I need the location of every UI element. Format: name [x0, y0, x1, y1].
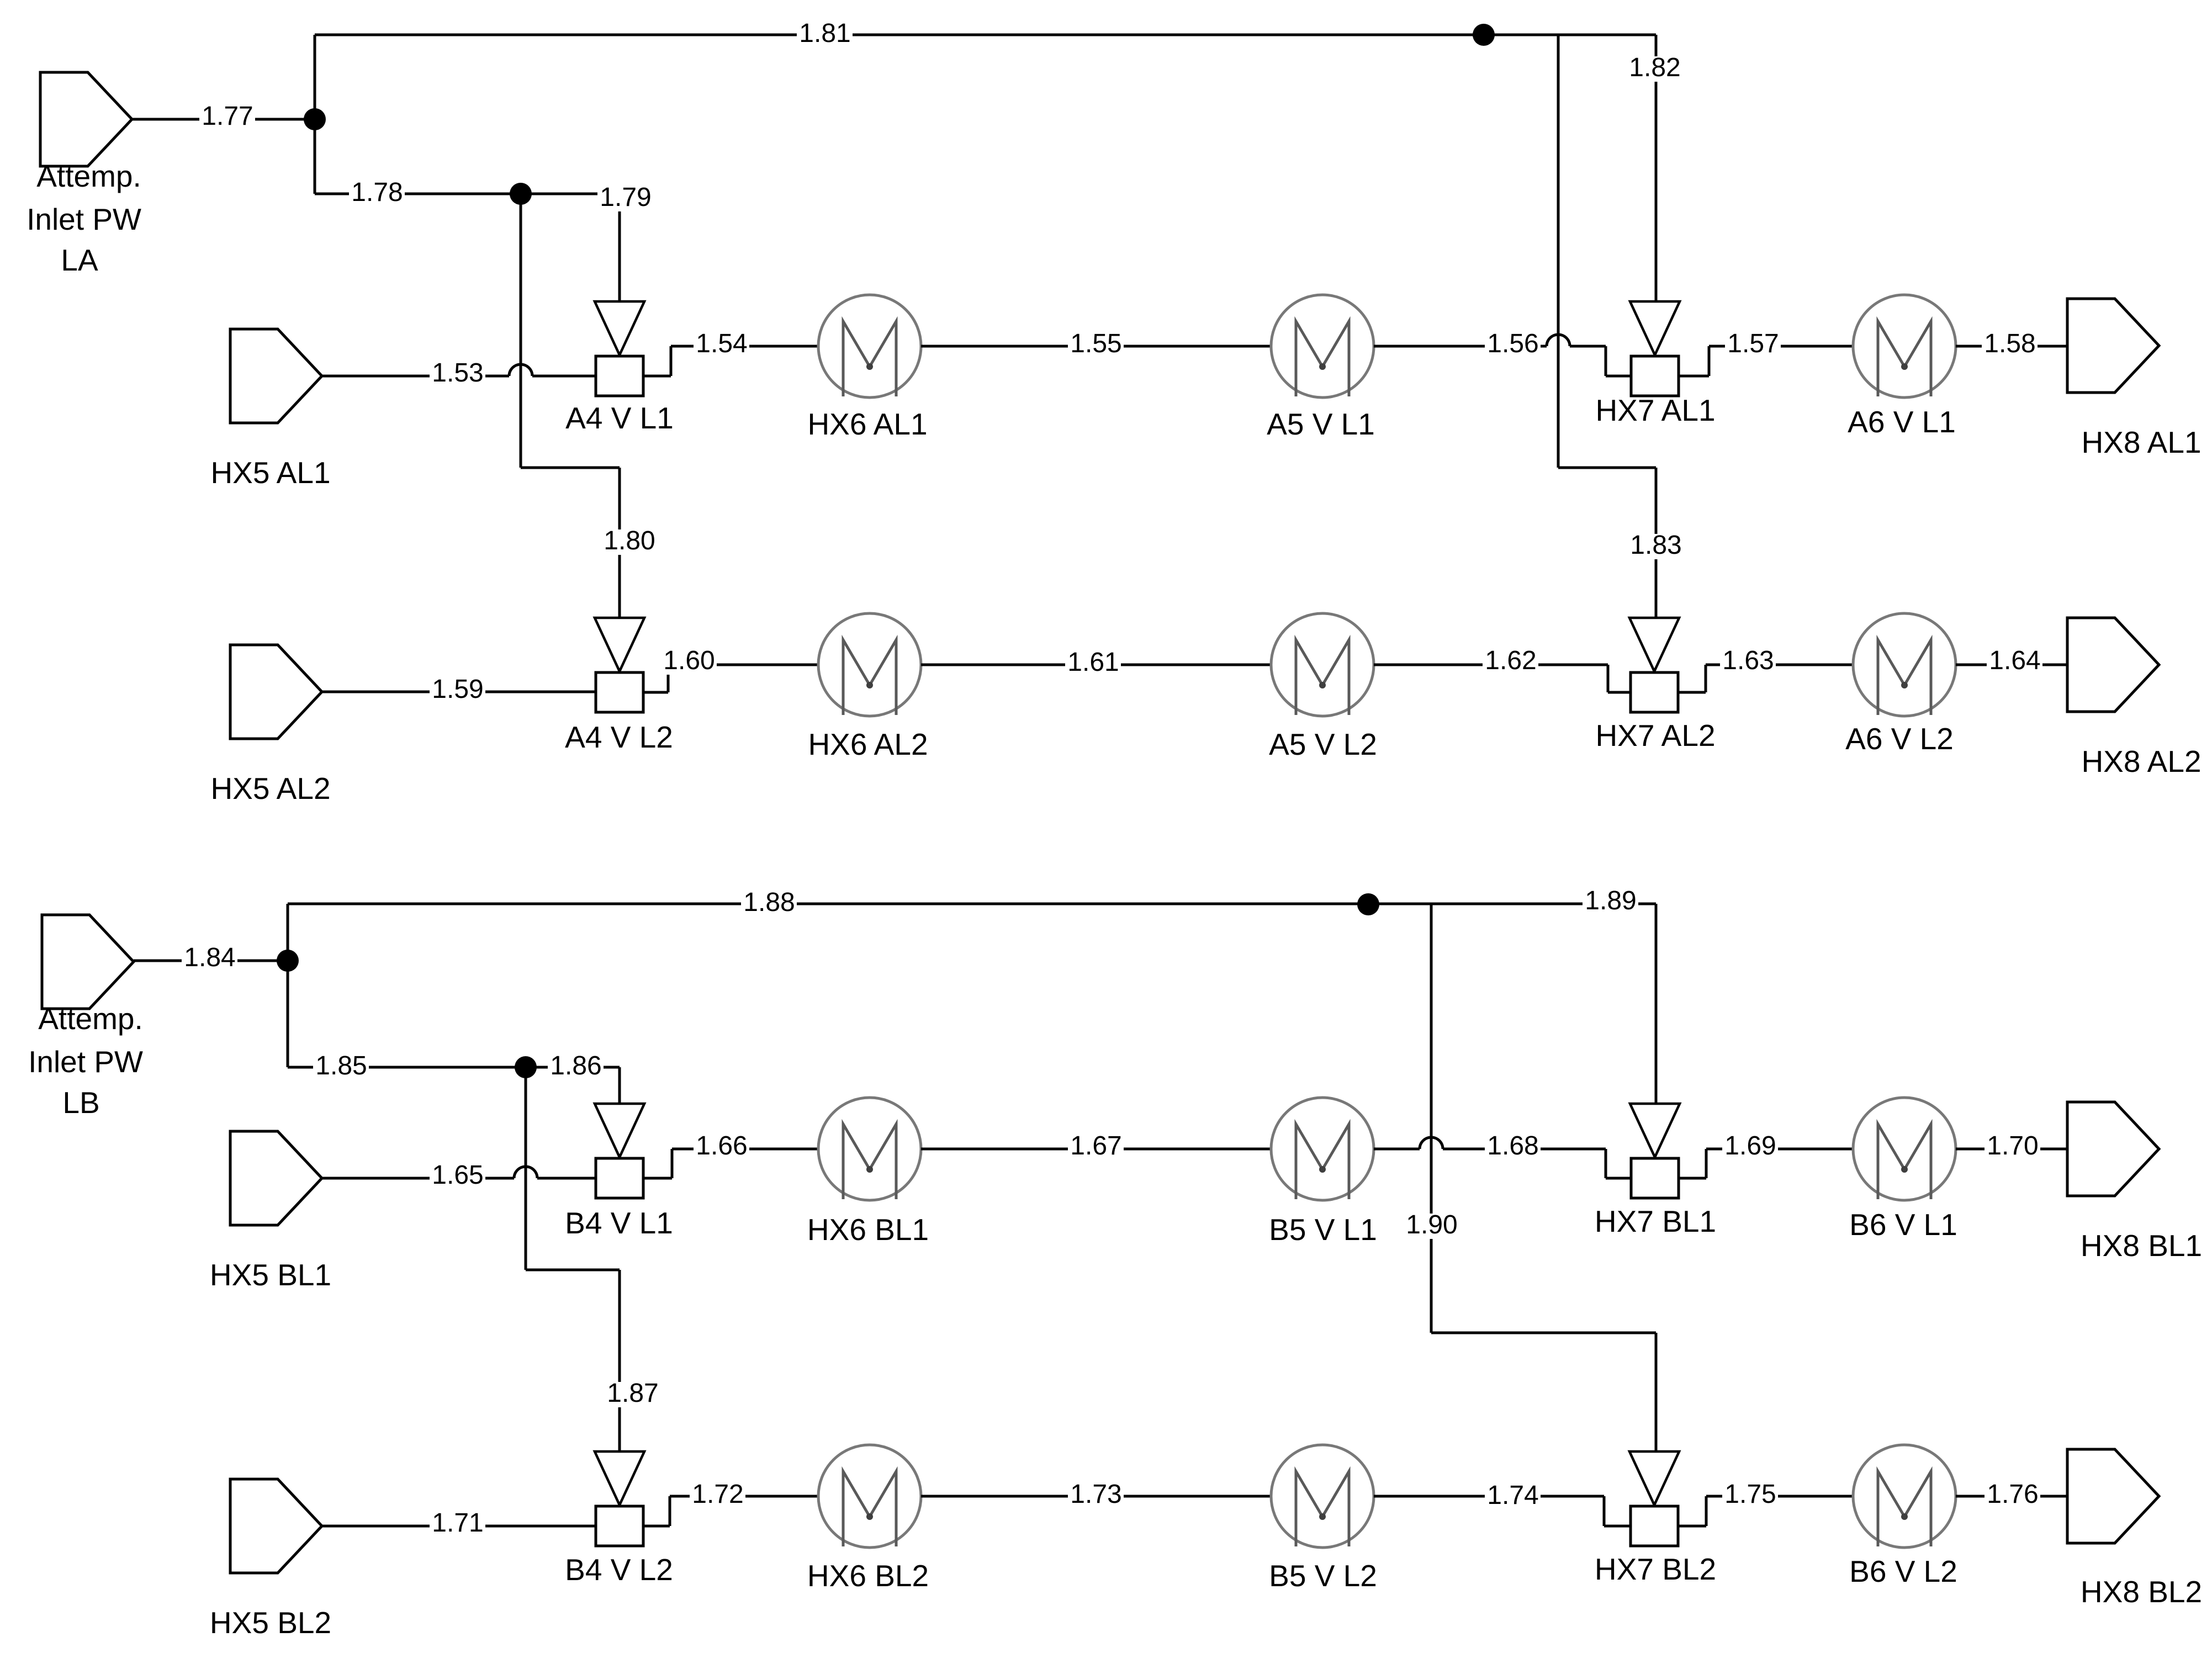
wire hop over vertical at 952 (row BL1)	[514, 1167, 537, 1178]
pentagon HX8 BL2	[2067, 1449, 2159, 1543]
svg-text:1.81: 1.81	[799, 19, 850, 48]
label 1.56	[1485, 332, 1541, 358]
svg-text:Inlet PW: Inlet PW	[28, 1045, 143, 1079]
label 1.70	[1985, 1135, 2040, 1160]
wire 1.64 segment	[1956, 664, 2067, 666]
motor B6 V L1	[1853, 1098, 1956, 1200]
wire 1.77 from LA pentagon to junction	[132, 118, 315, 121]
svg-text:1.71: 1.71	[432, 1508, 483, 1538]
label 1.55	[1068, 332, 1124, 358]
wire 1.79 segment to valve A4 V L1 stem	[521, 193, 620, 195]
label 1.87	[605, 1382, 660, 1407]
svg-text:1.74: 1.74	[1487, 1481, 1538, 1510]
svg-text:1.70: 1.70	[1987, 1131, 2038, 1161]
wire 1.71 segment	[322, 1525, 596, 1528]
wire 1.63 segment	[1678, 691, 1706, 694]
motor A6 V L1	[1853, 295, 1956, 398]
svg-text:1.90: 1.90	[1406, 1210, 1457, 1239]
wire vertical from LB junction up to header B	[287, 904, 289, 961]
svg-text:1.88: 1.88	[743, 888, 795, 917]
label 1.89	[1583, 889, 1638, 915]
label 1.81	[797, 22, 853, 47]
svg-text:1.55: 1.55	[1070, 329, 1121, 358]
svg-text:B6 V L1: B6 V L1	[1849, 1207, 1957, 1242]
svg-text:A5 V L2: A5 V L2	[1269, 727, 1377, 761]
wire vertical drop A right (to HX7 AL2 via jog)	[1557, 35, 1560, 468]
wire 1.69 segment	[1679, 1177, 1706, 1180]
wire 1.81 header line A	[315, 34, 1656, 36]
svg-text:B5 V L1: B5 V L1	[1269, 1212, 1377, 1247]
svg-text:HX6 AL1: HX6 AL1	[807, 407, 927, 441]
wire 1.61 segment	[921, 664, 1271, 666]
valve HX7 BL1	[1630, 1104, 1680, 1157]
wire vertical from junction down to jog (A left)	[520, 194, 522, 468]
svg-text:LB: LB	[62, 1085, 99, 1120]
label 1.65	[430, 1164, 485, 1189]
svg-text:HX8 BL1: HX8 BL1	[2081, 1228, 2202, 1263]
label 1.88	[741, 891, 797, 916]
svg-text:LA: LA	[61, 243, 98, 277]
svg-text:1.72: 1.72	[692, 1480, 743, 1509]
svg-text:B6 V L2: B6 V L2	[1849, 1554, 1957, 1588]
motor HX6 AL1	[818, 295, 921, 398]
svg-text:HX7 AL2: HX7 AL2	[1595, 718, 1715, 753]
label 1.59	[430, 678, 485, 703]
wire 1.56 segment	[1374, 345, 1547, 348]
label 1.69	[1722, 1135, 1778, 1160]
node junction dot 1.78/1.79	[510, 183, 532, 205]
label 1.85	[313, 1055, 369, 1080]
label 1.82	[1627, 56, 1682, 82]
wire 1.74 segment	[1374, 1495, 1604, 1498]
svg-text:1.56: 1.56	[1487, 329, 1538, 358]
svg-text:HX8 AL2: HX8 AL2	[2081, 744, 2201, 778]
svg-text:HX6 BL1: HX6 BL1	[807, 1212, 929, 1247]
svg-text:B4 V L1: B4 V L1	[565, 1206, 673, 1240]
svg-text:1.60: 1.60	[663, 646, 715, 675]
label 1.79	[597, 186, 653, 211]
motor HX6 BL2	[818, 1445, 921, 1548]
wire hop over vertical at 943 (row AL1)	[509, 364, 532, 376]
label 1.73	[1068, 1483, 1124, 1508]
wire 1.82 drop to valve HX7 AL1	[1655, 35, 1658, 301]
label 1.83	[1628, 534, 1684, 559]
svg-text:HX7 AL1: HX7 AL1	[1595, 393, 1715, 427]
valve A4 V L1	[595, 301, 644, 355]
svg-text:HX8 BL2: HX8 BL2	[2081, 1575, 2202, 1609]
svg-text:HX8 AL1: HX8 AL1	[2081, 425, 2201, 459]
wire hop over vertical at 2822 (row AL1)	[1547, 335, 1570, 346]
motor B5 V L1	[1271, 1098, 1374, 1200]
pentagon HX8 AL2	[2067, 618, 2159, 712]
svg-text:HX5 AL2: HX5 AL2	[210, 771, 330, 806]
label 1.80	[601, 529, 657, 555]
svg-text:1.57: 1.57	[1727, 329, 1779, 358]
svg-text:1.85: 1.85	[315, 1051, 367, 1080]
svg-text:1.65: 1.65	[432, 1161, 483, 1190]
pentagon HX5 BL1	[230, 1131, 322, 1225]
label 1.90	[1404, 1214, 1459, 1239]
svg-text:1.89: 1.89	[1585, 886, 1636, 915]
wire 1.59 segment	[322, 691, 596, 693]
svg-text:HX7 BL2: HX7 BL2	[1595, 1552, 1716, 1586]
wire 1.85 segment	[287, 961, 289, 1067]
svg-text:A6 V L1: A6 V L1	[1848, 405, 1956, 439]
node junction dot 1.77/1.78	[304, 108, 326, 130]
svg-text:1.76: 1.76	[1987, 1480, 2038, 1509]
pentagon HX5 AL2	[230, 645, 322, 739]
wire 1.53 segment	[322, 375, 509, 378]
label 1.84	[182, 946, 237, 972]
svg-text:A4 V L1: A4 V L1	[565, 401, 674, 435]
motor B5 V L2	[1271, 1445, 1374, 1548]
svg-text:B5 V L2: B5 V L2	[1269, 1559, 1377, 1593]
wire 1.66 segment	[643, 1177, 672, 1180]
node junction dot on header A	[1473, 24, 1495, 46]
motor A5 V L2	[1271, 613, 1374, 716]
label 1.67	[1068, 1135, 1124, 1160]
label 1.57	[1725, 332, 1781, 358]
wire vertical from LA junction up to header	[314, 35, 316, 119]
label 1.77	[199, 105, 255, 130]
svg-text:1.68: 1.68	[1487, 1131, 1538, 1161]
wire hop over vertical at 2592 (row BL1)	[1420, 1137, 1443, 1149]
wire 1.76 segment	[1956, 1495, 2067, 1498]
motor HX6 BL1	[818, 1098, 921, 1200]
svg-text:1.58: 1.58	[1984, 329, 2035, 358]
svg-text:1.78: 1.78	[351, 178, 403, 207]
svg-text:1.82: 1.82	[1629, 53, 1680, 82]
wire 1.70 segment	[1956, 1148, 2067, 1151]
label 1.63	[1720, 649, 1776, 675]
pentagon HX5 BL2	[230, 1479, 322, 1573]
svg-text:HX5 AL1: HX5 AL1	[210, 455, 330, 490]
svg-text:1.62: 1.62	[1485, 646, 1536, 675]
svg-text:Inlet PW: Inlet PW	[27, 202, 141, 236]
svg-text:1.86: 1.86	[550, 1051, 601, 1080]
wire 1.68 segment	[1374, 1148, 1420, 1151]
label 1.86	[548, 1055, 604, 1080]
svg-text:1.69: 1.69	[1724, 1131, 1776, 1161]
svg-text:1.53: 1.53	[432, 358, 483, 388]
wire 1.67 segment	[921, 1148, 1271, 1151]
label 1.53	[430, 362, 485, 387]
label 1.61	[1065, 651, 1121, 676]
svg-text:1.64: 1.64	[1989, 646, 2040, 675]
node junction dot 1.84/1.85	[277, 950, 299, 972]
svg-text:A5 V L1: A5 V L1	[1267, 407, 1375, 441]
svg-text:1.87: 1.87	[607, 1379, 658, 1408]
wire 1.78 segment	[314, 119, 316, 194]
pentagon Attemp. Inlet PW LB	[42, 915, 134, 1009]
wire 1.72 segment	[643, 1525, 670, 1528]
svg-text:1.84: 1.84	[184, 943, 235, 972]
label 1.68	[1485, 1135, 1541, 1160]
wire 1.75 segment	[1678, 1525, 1706, 1528]
wire 1.62 segment	[1374, 664, 1608, 666]
label 1.72	[690, 1483, 745, 1508]
motor A5 V L1	[1271, 295, 1374, 398]
wire 1.65 segment	[322, 1177, 514, 1180]
wire 1.84 from LB pentagon to junction	[134, 960, 288, 962]
valve B4 V L2	[595, 1451, 644, 1505]
wire 1.73 segment	[921, 1495, 1271, 1498]
wire 1.60 segment	[643, 691, 668, 694]
svg-text:1.67: 1.67	[1070, 1131, 1121, 1161]
svg-text:Attemp.: Attemp.	[38, 1002, 143, 1036]
wire 1.57 segment	[1679, 375, 1709, 378]
motor HX6 AL2	[818, 613, 921, 716]
node junction dot 1.85/1.86	[515, 1056, 537, 1078]
svg-text:A4 V L2: A4 V L2	[565, 720, 673, 754]
svg-text:A6 V L2: A6 V L2	[1845, 722, 1954, 756]
valve HX7 AL1	[1630, 301, 1680, 355]
pentagon HX8 AL1	[2067, 299, 2159, 393]
label 1.62	[1483, 649, 1538, 675]
svg-text:HX5 BL2: HX5 BL2	[210, 1606, 331, 1640]
label 1.66	[694, 1135, 749, 1160]
label 1.76	[1985, 1483, 2040, 1508]
valve HX7 AL2	[1629, 618, 1679, 671]
wire vertical drop B right (to HX7 BL2 via jog)	[1430, 904, 1433, 1333]
wire vertical from junction down to jog (B left)	[525, 1067, 527, 1270]
valve A4 V L2	[595, 618, 644, 671]
label 1.54	[694, 332, 749, 358]
label 1.75	[1722, 1483, 1778, 1508]
motor A6 V L2	[1853, 613, 1956, 716]
svg-text:1.63: 1.63	[1722, 646, 1774, 675]
svg-text:B4 V L2: B4 V L2	[565, 1553, 673, 1587]
wire 1.89 drop to valve HX7 BL1	[1655, 904, 1658, 1104]
svg-text:1.83: 1.83	[1630, 531, 1681, 560]
svg-text:1.73: 1.73	[1070, 1480, 1121, 1509]
svg-text:1.77: 1.77	[202, 102, 253, 131]
pentagon HX5 AL1	[230, 329, 322, 423]
svg-text:Attemp.: Attemp.	[36, 159, 141, 193]
wire 1.86 segment to valve B4 V L1 stem	[526, 1066, 620, 1069]
label 1.74	[1485, 1484, 1541, 1509]
wire 1.54 segment	[643, 375, 671, 378]
wire 1.88 header line B	[288, 903, 1656, 905]
svg-text:HX6 AL2: HX6 AL2	[808, 727, 928, 761]
node junction dot on header B	[1357, 893, 1379, 915]
wire 1.58 segment	[1956, 345, 2067, 348]
svg-text:HX5 BL1: HX5 BL1	[210, 1258, 331, 1292]
pentagon Attemp. Inlet PW LA	[40, 72, 132, 166]
motor B6 V L2	[1853, 1445, 1956, 1548]
svg-text:1.59: 1.59	[432, 675, 483, 704]
svg-text:1.66: 1.66	[696, 1131, 747, 1161]
label 1.60	[661, 649, 717, 675]
label 1.64	[1987, 649, 2042, 675]
pentagon HX8 BL1	[2067, 1102, 2159, 1196]
svg-text:1.54: 1.54	[696, 329, 747, 358]
valve B4 V L1	[595, 1104, 644, 1157]
svg-text:1.61: 1.61	[1067, 648, 1119, 677]
label 1.58	[1982, 332, 2038, 358]
label 1.78	[349, 181, 405, 206]
svg-text:HX6 BL2: HX6 BL2	[807, 1559, 929, 1593]
svg-text:1.75: 1.75	[1724, 1480, 1776, 1509]
svg-text:1.80: 1.80	[604, 526, 655, 555]
valve HX7 BL2	[1629, 1451, 1679, 1505]
svg-text:1.79: 1.79	[600, 183, 651, 212]
wire 1.55 segment	[921, 345, 1271, 348]
svg-text:HX7 BL1: HX7 BL1	[1595, 1204, 1716, 1238]
label 1.71	[430, 1512, 485, 1537]
